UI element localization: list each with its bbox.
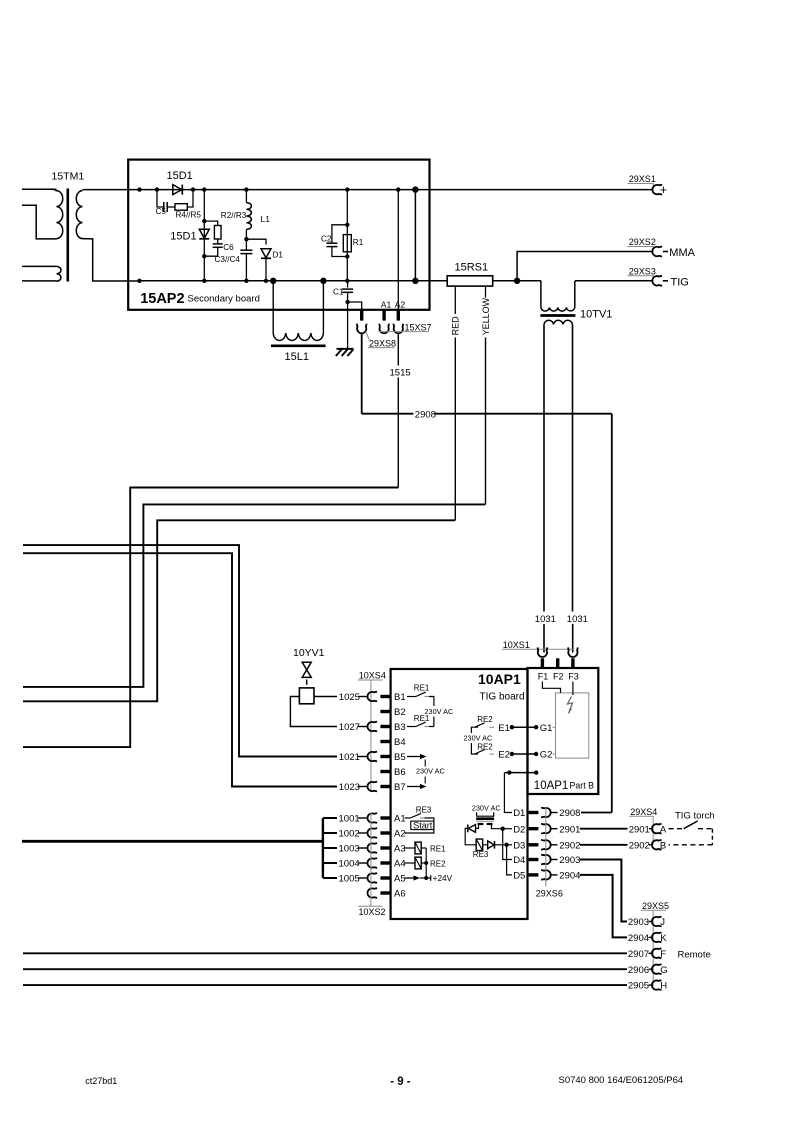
wire E1-G1 — [512, 726, 536, 728]
wire 1021 from left edge — [23, 545, 337, 756]
contact 10XS2 A2 — [368, 828, 378, 838]
node G1 — [534, 725, 538, 729]
connector 29XS6 column — [545, 807, 547, 887]
wire secondary right to D2 — [492, 825, 503, 829]
node MMA branch — [514, 278, 520, 284]
svg-text:E1: E1 — [498, 723, 510, 734]
svg-text:RE1: RE1 — [414, 714, 430, 723]
wire 2902 — [550, 844, 558, 846]
inductor 15L1 — [272, 281, 274, 333]
contact 29XS6 D4 — [541, 855, 551, 865]
shunt resistor 15RS1 — [447, 276, 493, 286]
wire D2 junction to D4 — [503, 829, 512, 860]
node E1 — [510, 725, 514, 729]
svg-text:D1: D1 — [273, 251, 284, 260]
svg-text:Remote: Remote — [678, 949, 711, 960]
contact 10XS4 B5 — [368, 752, 378, 762]
wire primary second tap — [22, 205, 57, 239]
svg-text:10XS1: 10XS1 — [503, 640, 530, 650]
svg-text:2904: 2904 — [559, 871, 580, 882]
wire 2902 to 29XS4 — [580, 844, 628, 846]
svg-text:A3: A3 — [394, 843, 406, 854]
wire secondary bottom lead — [83, 239, 140, 281]
TIG torch switch (dashed) — [669, 828, 684, 830]
wire E2-G2 — [512, 753, 536, 755]
svg-text:29XS6: 29XS6 — [536, 888, 563, 898]
svg-text:15L1: 15L1 — [285, 351, 309, 363]
node C1 output — [345, 300, 349, 304]
connector 29XS4 column — [652, 816, 654, 845]
svg-text:10YV1: 10YV1 — [293, 647, 325, 659]
wire 2901 — [550, 828, 558, 830]
wire 1025 from valve — [314, 696, 337, 698]
label 29XS8 — [366, 332, 370, 341]
svg-text:A5: A5 — [394, 873, 406, 884]
wire 1023 from left edge — [23, 553, 337, 786]
valve coil box — [299, 688, 314, 704]
capacitor C1 — [347, 281, 349, 288]
contact 29XS6 D1 — [541, 808, 551, 818]
connector 10XS4 column — [370, 680, 372, 791]
svg-text:29XS2: 29XS2 — [629, 237, 656, 247]
svg-text:1003: 1003 — [339, 843, 360, 854]
svg-text:A6: A6 — [394, 888, 406, 899]
svg-text:1031: 1031 — [567, 614, 588, 625]
svg-text:D1: D1 — [513, 808, 525, 819]
pin A3 — [380, 846, 390, 849]
svg-text:15D1: 15D1 — [167, 170, 193, 182]
wire 1031 right — [572, 324, 574, 611]
svg-text:F: F — [660, 949, 666, 960]
wire return to D1 — [504, 773, 512, 813]
contact 10XS4 B3 — [368, 722, 378, 732]
pin 15XS7 A1 — [382, 310, 385, 321]
svg-text:D3: D3 — [513, 840, 525, 851]
svg-text:B6: B6 — [394, 767, 406, 778]
pin A4 — [380, 861, 390, 864]
svg-text:2904: 2904 — [628, 933, 649, 944]
node R1 top rail — [345, 187, 349, 191]
wire F3 to spark unit — [572, 682, 574, 696]
svg-text:1005: 1005 — [339, 873, 360, 884]
wire 2901 to 29XS4 — [580, 828, 628, 830]
capacitor C2 — [332, 225, 347, 243]
svg-text:J: J — [660, 917, 665, 928]
board 15AP2 outline — [128, 160, 429, 310]
pin D1 — [529, 811, 539, 814]
relay coil RE1 — [405, 847, 416, 849]
pin A1 — [380, 816, 390, 819]
wire 1031 left — [543, 324, 545, 611]
pin B3 — [380, 725, 390, 728]
wire R1 branch — [346, 190, 348, 281]
pin F3 — [571, 658, 574, 668]
contact 10XS2 A3 — [368, 843, 378, 853]
svg-text:230V AC: 230V AC — [472, 804, 501, 813]
svg-text:15TM1: 15TM1 — [52, 171, 85, 183]
svg-text:+24V: +24V — [433, 873, 453, 883]
wire 2904 to 29XS5 — [580, 875, 627, 938]
svg-text:RED: RED — [451, 316, 461, 336]
relay coil RE3 — [476, 839, 483, 851]
node A2 wire on top rail — [396, 187, 400, 191]
svg-text:10XS4: 10XS4 — [359, 671, 386, 681]
transformer 15TM1 secondary winding — [76, 191, 82, 239]
wire 2903 to 29XS5 — [580, 860, 627, 922]
wire primary bottom taps — [22, 265, 57, 267]
pin 29XS8 — [360, 310, 363, 321]
transformer 15TM1 primary winding top — [57, 191, 63, 239]
transformer 10TV1 secondary — [544, 320, 573, 324]
relay coil RE2 — [405, 862, 416, 864]
svg-text:TIG torch: TIG torch — [675, 811, 715, 822]
svg-text:A2: A2 — [394, 828, 406, 839]
svg-text:D2: D2 — [513, 824, 525, 835]
svg-text:B5: B5 — [394, 752, 406, 763]
pin A2 — [380, 831, 390, 834]
node C2 top — [345, 223, 349, 227]
svg-text:Secondary board: Secondary board — [188, 294, 260, 305]
svg-text:2905: 2905 — [628, 981, 649, 992]
transformer 10TV1 primary — [540, 281, 542, 308]
pin F2 — [556, 658, 559, 668]
pin B4 — [380, 740, 390, 743]
svg-text:C6: C6 — [223, 243, 234, 252]
svg-text:1001: 1001 — [339, 813, 360, 824]
contact 29XS4 A — [652, 824, 662, 834]
node C5 branch left — [155, 187, 159, 191]
wire F1 to spark unit — [542, 682, 560, 693]
wire shunt to junction — [493, 280, 541, 282]
contact 29XS6 D3 — [541, 840, 551, 850]
arrow B7 — [407, 786, 422, 788]
node C5 branch right — [191, 187, 195, 191]
wire +24V bus — [425, 848, 427, 878]
svg-text:1031: 1031 — [535, 614, 556, 625]
svg-text:YELLOW: YELLOW — [481, 297, 491, 335]
svg-text:ct27bd1: ct27bd1 — [85, 1076, 117, 1086]
svg-text:1023: 1023 — [339, 782, 360, 793]
svg-text:2907: 2907 — [628, 949, 649, 960]
svg-text:2903: 2903 — [628, 917, 649, 928]
svg-text:K: K — [660, 933, 667, 944]
wire 1515 route to left edge — [23, 488, 398, 748]
svg-text:G1: G1 — [540, 723, 553, 734]
svg-text:B4: B4 — [394, 737, 406, 748]
wire 2907 from left edge — [23, 952, 627, 954]
svg-text:230V AC: 230V AC — [416, 767, 445, 776]
wire MMA branch — [517, 252, 653, 281]
svg-text:B: B — [660, 840, 666, 851]
svg-text:RE2: RE2 — [477, 743, 493, 752]
spark unit box — [556, 693, 589, 758]
svg-text:15RS1: 15RS1 — [455, 262, 489, 274]
svg-text:B2: B2 — [394, 707, 406, 718]
svg-text:A1: A1 — [394, 813, 406, 824]
board 10AP1 Part B outline — [528, 668, 599, 794]
aux transformer secondary — [478, 823, 484, 825]
wire 1005 — [323, 877, 337, 879]
svg-text:RE1: RE1 — [430, 844, 446, 853]
wire 1515 vertical — [397, 333, 399, 366]
wire 2906 from left edge — [23, 968, 627, 970]
svg-text:S0740 800 164/E061205/P64: S0740 800 164/E061205/P64 — [559, 1075, 684, 1086]
svg-text:1021: 1021 — [339, 752, 360, 763]
pin A6 — [380, 891, 390, 894]
node bottom rail entry — [137, 279, 141, 283]
svg-text:C5: C5 — [156, 207, 167, 216]
svg-text:1004: 1004 — [339, 858, 360, 869]
node L1 bottom — [244, 237, 248, 241]
svg-text:29XS8: 29XS8 — [369, 338, 396, 348]
svg-text:G2: G2 — [540, 750, 553, 761]
svg-text:10AP1: 10AP1 — [534, 780, 569, 792]
wire 2908 — [550, 812, 558, 814]
wire 1002 — [323, 832, 337, 834]
svg-text:2906: 2906 — [628, 965, 649, 976]
pin D3 — [529, 843, 539, 846]
resistor R2//R3 — [204, 221, 217, 225]
board 10AP1 outline — [391, 669, 528, 919]
pin B1 — [380, 695, 390, 698]
node 15L1 left — [270, 278, 276, 284]
wire 2908 to 29XS6-D1 — [435, 413, 612, 415]
svg-text:MMA: MMA — [669, 247, 695, 259]
svg-text:G: G — [660, 965, 667, 976]
svg-text:F2: F2 — [553, 671, 564, 681]
pin A5 — [380, 876, 390, 879]
node G2 — [534, 752, 538, 756]
capacitor C3//C4 — [245, 239, 247, 250]
contact 29XS6 D5 — [541, 870, 551, 880]
svg-text:R1: R1 — [353, 238, 364, 247]
svg-text:C3//C4: C3//C4 — [215, 255, 241, 264]
pin D5 — [529, 873, 539, 876]
node D2 junction — [501, 827, 505, 831]
svg-text:RE3: RE3 — [473, 850, 489, 859]
svg-text:29XS1: 29XS1 — [629, 174, 656, 184]
wire diode to RE3 coil — [465, 828, 476, 844]
wire top rail (+ bus) — [83, 189, 654, 191]
contact 10XS4 B7 — [368, 782, 378, 792]
svg-text:2901: 2901 — [629, 824, 650, 835]
wire 1001 — [323, 817, 337, 819]
svg-text:D5: D5 — [513, 871, 525, 882]
pin B6 — [380, 770, 390, 773]
wire output link — [414, 190, 416, 281]
pin B7 — [380, 785, 390, 788]
svg-text:2908: 2908 — [415, 409, 436, 420]
transformer 10TV1 core — [540, 314, 575, 317]
label 15XS7 — [379, 331, 430, 333]
svg-text:B1: B1 — [394, 692, 406, 703]
connector 15XS7 contact A2 — [393, 324, 403, 334]
connector 29XS8 contact — [357, 324, 367, 334]
svg-text:15AP2: 15AP2 — [140, 291, 184, 307]
node link top (big) — [412, 186, 418, 192]
contact 10XS1 F1 — [538, 647, 548, 657]
wire 1003 — [323, 847, 337, 849]
svg-text:10AP1: 10AP1 — [478, 671, 521, 687]
svg-text:C2: C2 — [321, 235, 332, 244]
wire 1027 from valve — [290, 697, 337, 727]
node 15L1 right — [320, 278, 326, 284]
wire bottom rail — [140, 280, 448, 282]
ground (chassis) — [337, 348, 354, 350]
connector 15XS7 contact A1 — [379, 324, 389, 334]
svg-text:1025: 1025 — [339, 692, 360, 703]
node C3//C4 bottom rail — [244, 279, 248, 283]
svg-text:B7: B7 — [394, 782, 406, 793]
contact 10XS2 A5 — [368, 873, 378, 883]
svg-text:- 9 -: - 9 - — [390, 1076, 411, 1088]
spark symbol — [568, 697, 573, 714]
wire D3 junction to D5 — [507, 845, 512, 875]
svg-text:29XS5: 29XS5 — [642, 901, 669, 911]
svg-text:2902: 2902 — [629, 840, 650, 851]
node R2//R3 branch top — [202, 219, 206, 223]
transformer 15TM1 primary winding bottom — [57, 266, 62, 281]
capacitor C6 — [217, 239, 219, 244]
wire A2 to top rail — [397, 190, 399, 310]
svg-text:10TV1: 10TV1 — [580, 308, 612, 320]
svg-text:230V AC: 230V AC — [464, 734, 493, 743]
svg-text:10XS2: 10XS2 — [359, 907, 386, 917]
svg-text:A4: A4 — [394, 858, 406, 869]
wire 2903 — [550, 859, 558, 861]
svg-text:B3: B3 — [394, 722, 406, 733]
contact 10XS4 B1 — [368, 692, 378, 702]
node D3 junction — [504, 843, 508, 847]
svg-text:RE2: RE2 — [430, 859, 446, 868]
pin B5 — [380, 755, 390, 758]
node L1 top — [244, 187, 248, 191]
svg-text:29XS4: 29XS4 — [630, 807, 657, 817]
contact 29XS6 D2 — [541, 824, 551, 834]
wire YELLOW route to left edge — [23, 504, 486, 687]
connector 10XS2 column — [370, 813, 372, 906]
wire spark return — [504, 772, 536, 774]
connector 29XS5 column — [652, 910, 654, 986]
svg-text:A2: A2 — [395, 300, 406, 310]
wire 2905 from left edge — [23, 984, 627, 986]
svg-text:R2//R3: R2//R3 — [221, 211, 247, 220]
wire 1004 — [323, 862, 337, 864]
contact 10XS2 A4 — [368, 858, 378, 868]
pin F1 — [541, 658, 544, 668]
transformer 15TM1 core — [67, 189, 70, 282]
node R2//R3 branch bottom — [202, 254, 206, 258]
svg-text:2903: 2903 — [559, 855, 580, 866]
contact 10XS2 A6 — [368, 888, 378, 898]
node diode bottom rail — [202, 279, 206, 283]
svg-text:RE2: RE2 — [477, 715, 493, 724]
svg-text:1027: 1027 — [339, 722, 360, 733]
wire YELLOW sense lead — [485, 286, 487, 297]
svg-text:TIG board: TIG board — [480, 692, 525, 703]
arrow B5 — [407, 756, 422, 758]
svg-text:29XS3: 29XS3 — [629, 266, 656, 276]
wire C1 to 29XS8 pin — [348, 302, 362, 310]
wire secondary left to diode — [476, 825, 479, 828]
node top rail entry — [137, 187, 141, 191]
wire RED route to left edge — [23, 520, 455, 701]
svg-text:A1: A1 — [381, 300, 392, 310]
wire 2908 from 29XS8 — [361, 333, 363, 414]
svg-text:15XS7: 15XS7 — [405, 323, 432, 333]
svg-text:1515: 1515 — [390, 368, 411, 379]
svg-text:+: + — [660, 183, 667, 197]
svg-text:E2: E2 — [498, 750, 510, 761]
node return left — [507, 770, 511, 774]
node D1 bottom rail — [264, 279, 268, 283]
svg-text:F3: F3 — [568, 671, 579, 681]
diode (RE3 to D3) — [483, 844, 488, 846]
cable bundle to 10XS2 — [22, 840, 323, 843]
svg-text:Start: Start — [413, 820, 433, 830]
svg-text:15D1: 15D1 — [170, 231, 196, 243]
svg-text:2901: 2901 — [559, 824, 580, 835]
svg-text:D4: D4 — [513, 855, 525, 866]
node link bottom (big) — [412, 278, 418, 284]
resistor R4//R5 — [175, 204, 187, 211]
svg-text:H: H — [660, 981, 667, 992]
node return right — [534, 770, 538, 774]
arrow A5 +24V — [405, 877, 416, 879]
diode D1 — [246, 239, 266, 244]
svg-text:RE3: RE3 — [416, 806, 432, 815]
svg-text:Part B: Part B — [570, 781, 595, 791]
svg-text:F1: F1 — [538, 671, 549, 681]
wire TIG branch — [575, 280, 653, 282]
svg-text:A: A — [660, 824, 667, 835]
label Start box — [411, 821, 434, 830]
capacitor C5 with resistor R4//R5 branch — [157, 190, 164, 207]
svg-text:2908: 2908 — [559, 808, 580, 819]
svg-text:TIG: TIG — [671, 276, 689, 288]
svg-text:C1: C1 — [333, 288, 344, 297]
contact 10XS2 A1 — [368, 813, 378, 823]
wire 2904 — [550, 874, 558, 876]
node E2 — [510, 752, 514, 756]
resistor R1 — [343, 235, 351, 252]
contact 29XS4 B — [652, 840, 662, 850]
svg-text:1002: 1002 — [339, 828, 360, 839]
aux transformer primary — [477, 812, 494, 816]
svg-text:R4//R5: R4//R5 — [176, 211, 202, 220]
node diode top rail — [202, 187, 206, 191]
wire primary top tap — [22, 188, 57, 190]
inductor 15L1 core bar — [271, 344, 326, 347]
node R1 bottom rail — [345, 279, 349, 283]
contact 10XS1 F3 — [568, 647, 578, 657]
diode (to RE3) — [468, 825, 475, 833]
wire RED sense lead — [454, 286, 456, 314]
node C2 bottom — [345, 254, 349, 258]
svg-text:RE1: RE1 — [414, 684, 430, 693]
pin D2 — [529, 827, 539, 830]
pin 15XS7 A2 — [397, 310, 400, 321]
svg-text:L1: L1 — [261, 214, 271, 224]
aux transformer core — [476, 817, 494, 820]
inductor L1 — [245, 190, 247, 203]
pin D4 — [529, 858, 539, 861]
label 230V AC (B5-B7) — [424, 760, 426, 767]
svg-text:2902: 2902 — [559, 840, 580, 851]
pin B2 — [380, 710, 390, 713]
